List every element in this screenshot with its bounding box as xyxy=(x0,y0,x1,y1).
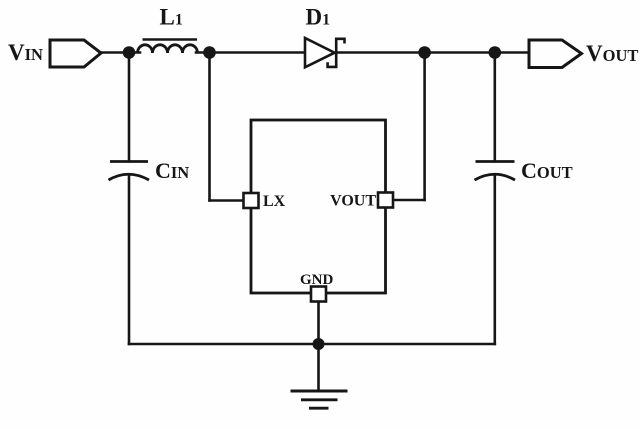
wire ground rail xyxy=(129,343,495,346)
svg-text:LX: LX xyxy=(263,193,286,210)
wire node D down to COUT xyxy=(493,53,496,162)
ground symbol xyxy=(291,391,348,408)
wire rail junction down to earth xyxy=(317,344,320,391)
wire COUT bottom to ground rail xyxy=(493,175,496,344)
input port VIN xyxy=(50,40,101,67)
wire VOUT pin to riser xyxy=(393,199,425,202)
inductor L1 xyxy=(138,45,198,53)
junction dot ground rail xyxy=(313,338,325,350)
diode D1 (Schottky) xyxy=(305,38,345,67)
capacitor CIN xyxy=(109,162,150,181)
wire CIN bottom to ground rail xyxy=(128,175,131,344)
pin VOUT xyxy=(378,193,393,208)
wire riser up to node C xyxy=(423,53,426,201)
wire diode cathode to node C xyxy=(337,51,425,54)
svg-text:VOUT: VOUT xyxy=(330,193,376,210)
wire node B to diode anode xyxy=(210,51,305,54)
node A junction dot xyxy=(123,46,136,59)
pin GND xyxy=(311,287,326,302)
wire node D to VOUT connector xyxy=(495,51,529,54)
wire coil end to node B xyxy=(196,51,210,54)
output port VOUT xyxy=(529,40,582,68)
wire to LX pin xyxy=(210,199,245,202)
node B junction dot xyxy=(203,46,216,59)
node C junction dot xyxy=(418,46,431,59)
wire node B down to LX pin xyxy=(208,53,211,201)
node D junction dot xyxy=(489,46,502,59)
wire node C to node D xyxy=(425,51,495,54)
svg-text:GND: GND xyxy=(300,272,334,288)
op-amp U1 ic body xyxy=(251,120,386,293)
capacitor COUT xyxy=(475,162,516,181)
wire node A down to CIN xyxy=(128,53,131,162)
wire GND pin down to rail xyxy=(317,301,320,344)
pin LX xyxy=(244,193,259,208)
inductor L1 core bar xyxy=(143,38,198,40)
wire top: VIN connector to node A xyxy=(99,51,140,54)
